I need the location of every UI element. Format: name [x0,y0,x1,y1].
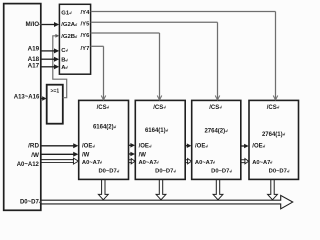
svg-text:A0~A12: A0~A12 [17,162,40,168]
svg-text:A19: A19 [28,45,40,52]
svg-text:/OE: /OE [252,144,262,150]
svg-text:G1: G1 [61,10,70,16]
svg-text:/RD: /RD [28,143,39,150]
svg-text:/Y7: /Y7 [81,46,91,52]
svg-text:/OE: /OE [82,144,92,150]
svg-text:/G2B: /G2B [61,34,75,40]
svg-text:/W: /W [82,153,90,159]
svg-text:A0~A7: A0~A7 [195,160,213,166]
svg-text:M/IO: M/IO [26,21,40,28]
svg-text:/CS: /CS [153,105,163,111]
svg-text:/CS: /CS [267,105,277,111]
svg-text:/Y6: /Y6 [81,33,91,39]
svg-text:A13~A16: A13~A16 [14,95,40,101]
svg-text:6164(2): 6164(2) [93,125,114,131]
svg-text:/CS: /CS [209,105,219,111]
svg-text:/OE: /OE [139,144,149,150]
svg-text:A0~A7: A0~A7 [82,160,100,166]
svg-text:A17: A17 [28,63,40,70]
svg-text:D0~D7: D0~D7 [98,169,116,175]
svg-text:D0~D7: D0~D7 [155,169,173,175]
svg-text:/CS: /CS [97,105,107,111]
svg-text:/G2A: /G2A [61,22,75,28]
svg-text:>=1: >=1 [50,89,59,95]
svg-text:A0~A7: A0~A7 [252,160,270,166]
svg-text:/W: /W [31,152,39,159]
svg-text:/W: /W [139,153,147,159]
svg-text:D0~D7: D0~D7 [20,200,40,206]
svg-text:/Y5: /Y5 [81,21,91,27]
svg-text:A0~A7: A0~A7 [139,160,157,166]
svg-text:/OE: /OE [195,144,205,150]
svg-text:6164(1): 6164(1) [145,128,166,134]
svg-text:2764(2): 2764(2) [204,129,225,135]
svg-text:B: B [61,58,65,64]
svg-text:D0~D7: D0~D7 [211,169,229,175]
svg-text:D0~D7: D0~D7 [269,169,287,175]
svg-text:2764(1): 2764(1) [262,132,283,138]
svg-text:/Y4: /Y4 [81,10,91,16]
